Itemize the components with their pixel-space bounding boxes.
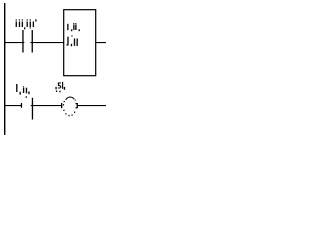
- wire rung2: coil to right edge: [78, 105, 106, 106]
- contact C1 left bar: [22, 30, 23, 53]
- label 50 above coil: [55, 82, 65, 92]
- timer box text TIM: [67, 23, 80, 31]
- coil Q ellipse dotted: [63, 97, 77, 116]
- contact C2 bar: [32, 98, 33, 120]
- label T.0. above contact C2: [16, 84, 30, 98]
- label 0.00 above contact C1: [16, 19, 37, 29]
- timer box text 150: [66, 35, 78, 46]
- wire rung1: rail to contact C1: [4, 42, 24, 43]
- coil right tick: [77, 103, 78, 108]
- tick end cap rung2: [21, 103, 22, 108]
- wire rung2: contact C2 to coil: [31, 105, 61, 106]
- timer box TIM: [64, 10, 96, 76]
- wire rung1: timer box to right edge: [96, 42, 106, 43]
- contact C1 right bar: [32, 30, 33, 53]
- wire rung2: rail to tick: [4, 105, 22, 106]
- left power rail: [4, 3, 5, 135]
- coil left tick: [61, 103, 62, 108]
- wire rung1: contact C1 to timer box: [30, 42, 63, 43]
